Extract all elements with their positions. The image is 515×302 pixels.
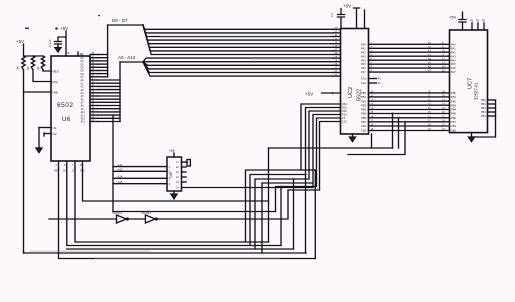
svg-text:+5V: +5V [60, 26, 68, 31]
UC7 top control pins [470, 20, 486, 31]
inverter U4A 74LS04 [112, 211, 128, 223]
svg-text:PB6: PB6 [361, 116, 366, 120]
wire inverter mid segment [128, 218, 145, 220]
svg-text:PA7: PA7 [451, 70, 456, 74]
svg-text:4: 4 [169, 182, 171, 186]
svg-text:PB2: PB2 [451, 99, 456, 103]
wire bundle run y=186.5 to UC2 pin [276, 118, 341, 212]
svg-text:CA1: CA1 [361, 77, 367, 81]
U6 pin phi1 [39, 126, 57, 130]
resistor R2 3K [26, 56, 35, 70]
scan smudge streaks (decorative) [30, 36, 332, 259]
svg-text:PB5: PB5 [361, 112, 366, 116]
svg-text:12: 12 [176, 175, 179, 179]
wire bus fan-out A lines [143, 58, 333, 76]
wire R1 to NMI pin, continues to bottom bus [23, 70, 25, 253]
svg-text:PB3: PB3 [451, 103, 456, 107]
wire riser x=405 under UC2 [348, 121, 406, 155]
svg-text:+5V: +5V [343, 4, 351, 9]
svg-text:1: 1 [169, 165, 171, 169]
wire UC2 Vcc pin [354, 8, 360, 29]
svg-text:PB1: PB1 [361, 95, 366, 99]
svg-text:R2: R2 [470, 20, 474, 23]
svg-text:13: 13 [176, 180, 179, 184]
svg-text:PB6: PB6 [451, 116, 456, 120]
svg-text:6502: 6502 [57, 102, 73, 109]
svg-text:CS1: CS1 [342, 121, 347, 124]
wire trunk vertical x=268.5 [268, 148, 270, 242]
wire U3 chip-select output to PB riser [182, 187, 314, 189]
UC7 right side pins with wire loop to ground [472, 99, 496, 137]
wire bottom run y=253 (from pull-up rail) [24, 251, 307, 253]
svg-text:PA2: PA2 [361, 50, 366, 54]
wire y=148 run under UC2 [269, 147, 393, 149]
svg-text:PB0: PB0 [451, 91, 456, 95]
svg-text:40: 40 [378, 82, 381, 85]
ground (U3) [171, 191, 177, 199]
chip UC7 32507-01 [450, 30, 488, 133]
power +5V (UC2 left pin) [305, 92, 341, 97]
wire bottom run y=242 [75, 168, 269, 242]
svg-text:PA6: PA6 [361, 66, 366, 70]
wire A-trunk vertical to bottom [112, 115, 114, 212]
svg-text:0.1uF: 0.1uF [48, 39, 52, 47]
svg-text:8: 8 [68, 51, 70, 55]
wire data bus trunk D0-D7 [98, 25, 143, 77]
capacitor C2 0.1 (top of UC2) [330, 9, 345, 29]
wire bundle run y=170 to UC2 pin [246, 104, 341, 242]
svg-text:145: 145 [169, 172, 173, 178]
svg-text:PA1: PA1 [361, 46, 366, 50]
wire UC2 Vss drop [371, 134, 373, 148]
capacitor C3 (top of UC7) [459, 12, 466, 30]
svg-text:PB0: PB0 [361, 91, 366, 95]
svg-text:A13: A13 [118, 168, 123, 172]
svg-text:PA1: PA1 [451, 46, 456, 50]
svg-text:PB4: PB4 [451, 108, 456, 112]
svg-text:PB3: PB3 [481, 111, 486, 114]
wire riser to PB line with junction [392, 113, 394, 149]
wire inverter input run y=219 [49, 218, 117, 220]
svg-text:A14: A14 [118, 175, 123, 179]
svg-text:A12: A12 [118, 163, 123, 167]
wire PB0-PB7 port B bus UC2 to UC7 [361, 91, 457, 133]
svg-text:IRQ: IRQ [53, 80, 59, 84]
svg-text:PB4: PB4 [481, 115, 486, 118]
svg-text:40: 40 [378, 78, 381, 81]
svg-text:A13: A13 [81, 121, 86, 124]
svg-text:3K: 3K [16, 66, 20, 70]
wire bottom run y=249 [67, 248, 294, 250]
wire PA0-PA7 port A bus UC2 to UC7 [361, 42, 456, 74]
U3 inner pin labels [169, 160, 180, 190]
UC2 CA1/CA2 stub pins [361, 77, 381, 86]
wire riser x=315.3 [314, 170, 316, 259]
resistor R3 3K [36, 56, 45, 70]
cpu U6 6502 [51, 56, 90, 161]
svg-text:NMI: NMI [53, 91, 59, 95]
svg-text:2: 2 [56, 163, 58, 167]
svg-text:3K: 3K [36, 66, 40, 70]
svg-text:10: 10 [176, 165, 179, 169]
via UC2 6522 [341, 29, 369, 135]
inverter U4B 74LS04 [141, 211, 157, 223]
svg-text:PB0: PB0 [481, 99, 486, 102]
svg-text:CB2: CB2 [451, 129, 457, 133]
svg-text:7: 7 [72, 163, 74, 167]
U3 input pins A12-A15 (branch off trunk) [113, 163, 167, 184]
wire address bus trunk A0-A12 [98, 62, 143, 122]
svg-text:PA0: PA0 [361, 42, 366, 46]
ground (clock pin) [36, 148, 42, 153]
svg-text:O1: O1 [53, 126, 57, 130]
U6 pin phi2 with wire to ground [39, 128, 57, 149]
svg-text:PA5: PA5 [451, 62, 456, 66]
svg-text:PA3: PA3 [361, 54, 366, 58]
wire VCC to pin 8 of U6 [66, 31, 70, 56]
svg-text:CB1: CB1 [451, 124, 457, 128]
svg-text:PB1: PB1 [481, 103, 486, 106]
svg-text:D0 - D7: D0 - D7 [112, 18, 128, 23]
small component (U3 top right) [186, 160, 190, 167]
svg-text:0.1: 0.1 [330, 13, 334, 17]
svg-text:PA5: PA5 [361, 62, 366, 66]
wire riser x=293.5 [293, 179, 295, 249]
wire bundle run y=183 to UC2 pin [262, 115, 341, 254]
svg-text:PB5: PB5 [451, 112, 456, 116]
ground (UC7) [469, 133, 475, 142]
svg-text:PA3: PA3 [451, 54, 456, 58]
ground (below C1) [55, 48, 61, 53]
svg-text:PB7: PB7 [361, 120, 366, 124]
U6 bottom control pins [54, 161, 85, 173]
svg-text:+5V: +5V [305, 92, 313, 97]
svg-text:+5V: +5V [16, 39, 24, 44]
wire bottom run y=245.5 [67, 168, 281, 246]
svg-text:11: 11 [176, 170, 179, 174]
svg-text:R2: R2 [476, 20, 480, 23]
capacitor C1 0.1uF decoupling [48, 37, 66, 48]
UC2 control pin labels [342, 103, 347, 124]
wire bundle run y=174.5 to UC2 pin [250, 108, 341, 246]
svg-text:+5V: +5V [449, 15, 457, 20]
wire bus fan-out D lines [143, 25, 333, 55]
svg-text:A0 - A12: A0 - A12 [118, 55, 136, 60]
wire +5V rail to resistors [24, 44, 44, 56]
wire bundle run y=179 to UC2 pin [255, 111, 341, 249]
svg-text:PB1: PB1 [451, 95, 456, 99]
wire bottom run y=258.5 [59, 168, 316, 259]
svg-text:R2: R2 [482, 20, 486, 23]
svg-text:9: 9 [176, 160, 178, 164]
svg-text:14: 14 [176, 186, 179, 190]
wire bottom run y=201 (R/W) [83, 168, 269, 201]
wire bottom run y=210 [113, 211, 276, 213]
U6 pin 37 tick (top) [78, 52, 83, 56]
svg-text:UC2: UC2 [348, 87, 354, 98]
decoder U3 [167, 157, 182, 191]
wire R2 to IRQ pin [33, 70, 51, 82]
U6 address/data pins (right side comb) [81, 53, 99, 124]
svg-text:PA6: PA6 [451, 66, 456, 70]
svg-text:PA4: PA4 [451, 58, 456, 62]
wire riser x=306 [305, 175, 307, 254]
svg-text:CB2: CB2 [361, 129, 367, 133]
svg-text:3K: 3K [26, 66, 30, 70]
scan specks (decorative) [25, 15, 100, 30]
svg-text:PB7: PB7 [451, 120, 456, 124]
svg-text:PB2: PB2 [481, 107, 486, 110]
U3 output pins [182, 162, 187, 182]
svg-text:32507-01: 32507-01 [474, 82, 479, 100]
svg-text:PA0: PA0 [451, 42, 456, 46]
svg-text:PB4: PB4 [361, 108, 366, 112]
svg-text:PA4: PA4 [361, 58, 366, 62]
svg-text:A15: A15 [118, 180, 123, 184]
wire riser x=281 [280, 187, 282, 246]
ground (UC2) [350, 134, 356, 142]
svg-text:CB1: CB1 [361, 124, 367, 128]
svg-text:RES: RES [53, 70, 59, 74]
svg-text:PA2: PA2 [451, 50, 456, 54]
wire R3 to RES pin [43, 70, 51, 71]
UC2 data/address input pins [333, 27, 341, 77]
svg-text:PB2: PB2 [361, 99, 366, 103]
resistor R1 3K [16, 56, 26, 70]
svg-text:PA7: PA7 [361, 70, 366, 74]
wire inverter output riser to UC2 pin [157, 122, 340, 220]
svg-text:CA2: CA2 [361, 81, 367, 85]
wire UC2 CA pin (top) [364, 10, 366, 29]
svg-text:O2: O2 [53, 132, 57, 136]
power +5V (top of U3) [169, 149, 176, 157]
wire riser from U3 output to PB with junction [398, 117, 400, 148]
svg-text:U6: U6 [62, 117, 71, 123]
svg-text:PB3: PB3 [361, 103, 366, 107]
